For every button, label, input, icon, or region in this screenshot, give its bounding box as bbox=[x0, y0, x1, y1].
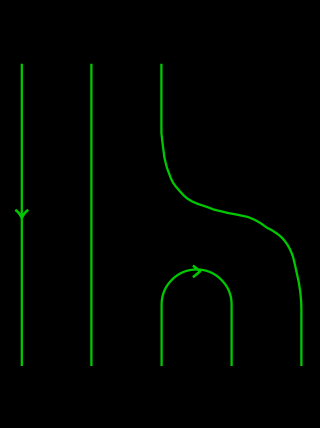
arrowhead on strand 1 (pointing down) bbox=[15, 210, 28, 218]
wire: strand 2 vertical bbox=[90, 64, 92, 366]
wire: cap/arc strand (inverted U) between bottom positions 3 and 4 bbox=[162, 270, 232, 367]
wire: strand 3 S-curve from top middle to bottom right bbox=[161, 64, 301, 366]
arrowhead on arc apex (pointing right) bbox=[193, 266, 200, 278]
wire: strand 1 vertical (left) bbox=[21, 64, 23, 366]
